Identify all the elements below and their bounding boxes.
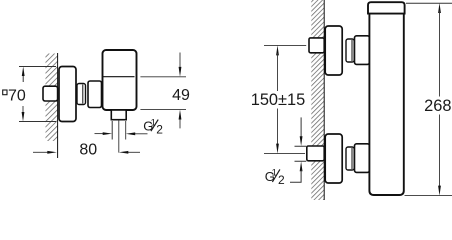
bottom union collar (right view)	[355, 144, 370, 173]
union collar (left view)	[88, 81, 102, 108]
dim 49 bottom extension line	[140, 109, 186, 111]
svg-text:2: 2	[278, 173, 285, 187]
dim 70 up arrow	[22, 67, 25, 83]
outlet G1/2 left extension line	[111, 121, 113, 140]
dim 150 vertical line with arrows	[276, 45, 279, 153]
dim 268 bottom extension line	[405, 195, 452, 197]
wall line (left view)	[57, 53, 59, 158]
dim 49 top extension line	[140, 76, 186, 78]
outlet nipple (left view)	[111, 110, 126, 120]
dim 150 bottom extension line	[264, 153, 305, 155]
dim G1/2 right arrow (left view)	[126, 132, 148, 135]
wall hatch (right view)	[311, 0, 324, 200]
body joint line (left view)	[103, 76, 135, 78]
wall hatch (left view)	[46, 54, 58, 142]
svg-text:268: 268	[424, 97, 451, 115]
dim G1/2 left arrow (left view)	[95, 132, 113, 135]
union ring (left view)	[77, 84, 86, 105]
outlet G1/2 right extension line	[125, 121, 127, 140]
svg-text:2: 2	[156, 123, 163, 137]
dim G1/2 label (left view)	[143, 118, 163, 137]
union ring chamfer line (left view)	[82, 85, 84, 104]
dim G1/2 up arrow with leader (right view)	[290, 161, 303, 182]
dim 150 top extension line	[264, 44, 306, 46]
svg-text:70: 70	[8, 88, 26, 105]
flange / escutcheon (left view)	[59, 67, 76, 122]
valve body (left view)	[103, 50, 137, 110]
dim 80 left arrow	[33, 151, 57, 154]
top union ring chamfer line (right view)	[351, 40, 353, 61]
top union ring (right view)	[346, 39, 354, 62]
svg-text:49: 49	[172, 87, 190, 104]
bottom union ring chamfer line (right view)	[351, 148, 353, 169]
dim 49 top arrow	[179, 53, 182, 77]
dim 70 square symbol	[3, 90, 7, 95]
dim 70 down arrow	[22, 106, 25, 122]
dim 70 top extension line	[19, 66, 56, 68]
dim 70 bottom extension line	[19, 121, 56, 123]
dim G1/2 label (right view)	[265, 167, 285, 187]
bottom union ring (right view)	[346, 147, 354, 170]
outlet centerline extension	[118, 120, 120, 153]
top union collar (right view)	[355, 36, 370, 65]
bottom flange (right view)	[325, 134, 342, 183]
wall line (right view)	[323, 0, 325, 200]
dim 268 vertical line with arrows	[438, 3, 441, 196]
dim G1/2 top extension line (right view)	[295, 145, 307, 147]
svg-text:80: 80	[79, 141, 97, 158]
inlet pipe square (left view)	[43, 86, 58, 101]
shower bar column	[369, 13, 403, 195]
dim 80 right arrow	[119, 151, 140, 154]
shower bar top cap	[368, 2, 405, 13]
top flange (right view)	[325, 26, 342, 75]
top inlet pipe square (right view)	[309, 38, 324, 53]
svg-text:150±15: 150±15	[251, 91, 306, 109]
dim G1/2 bottom extension line (right view)	[295, 160, 307, 162]
dim 49 bottom arrow	[179, 110, 182, 129]
dim 268 top extension line	[406, 2, 452, 4]
bottom inlet pipe square (right view)	[307, 146, 324, 161]
dim G1/2 down arrow (right view)	[300, 117, 303, 146]
